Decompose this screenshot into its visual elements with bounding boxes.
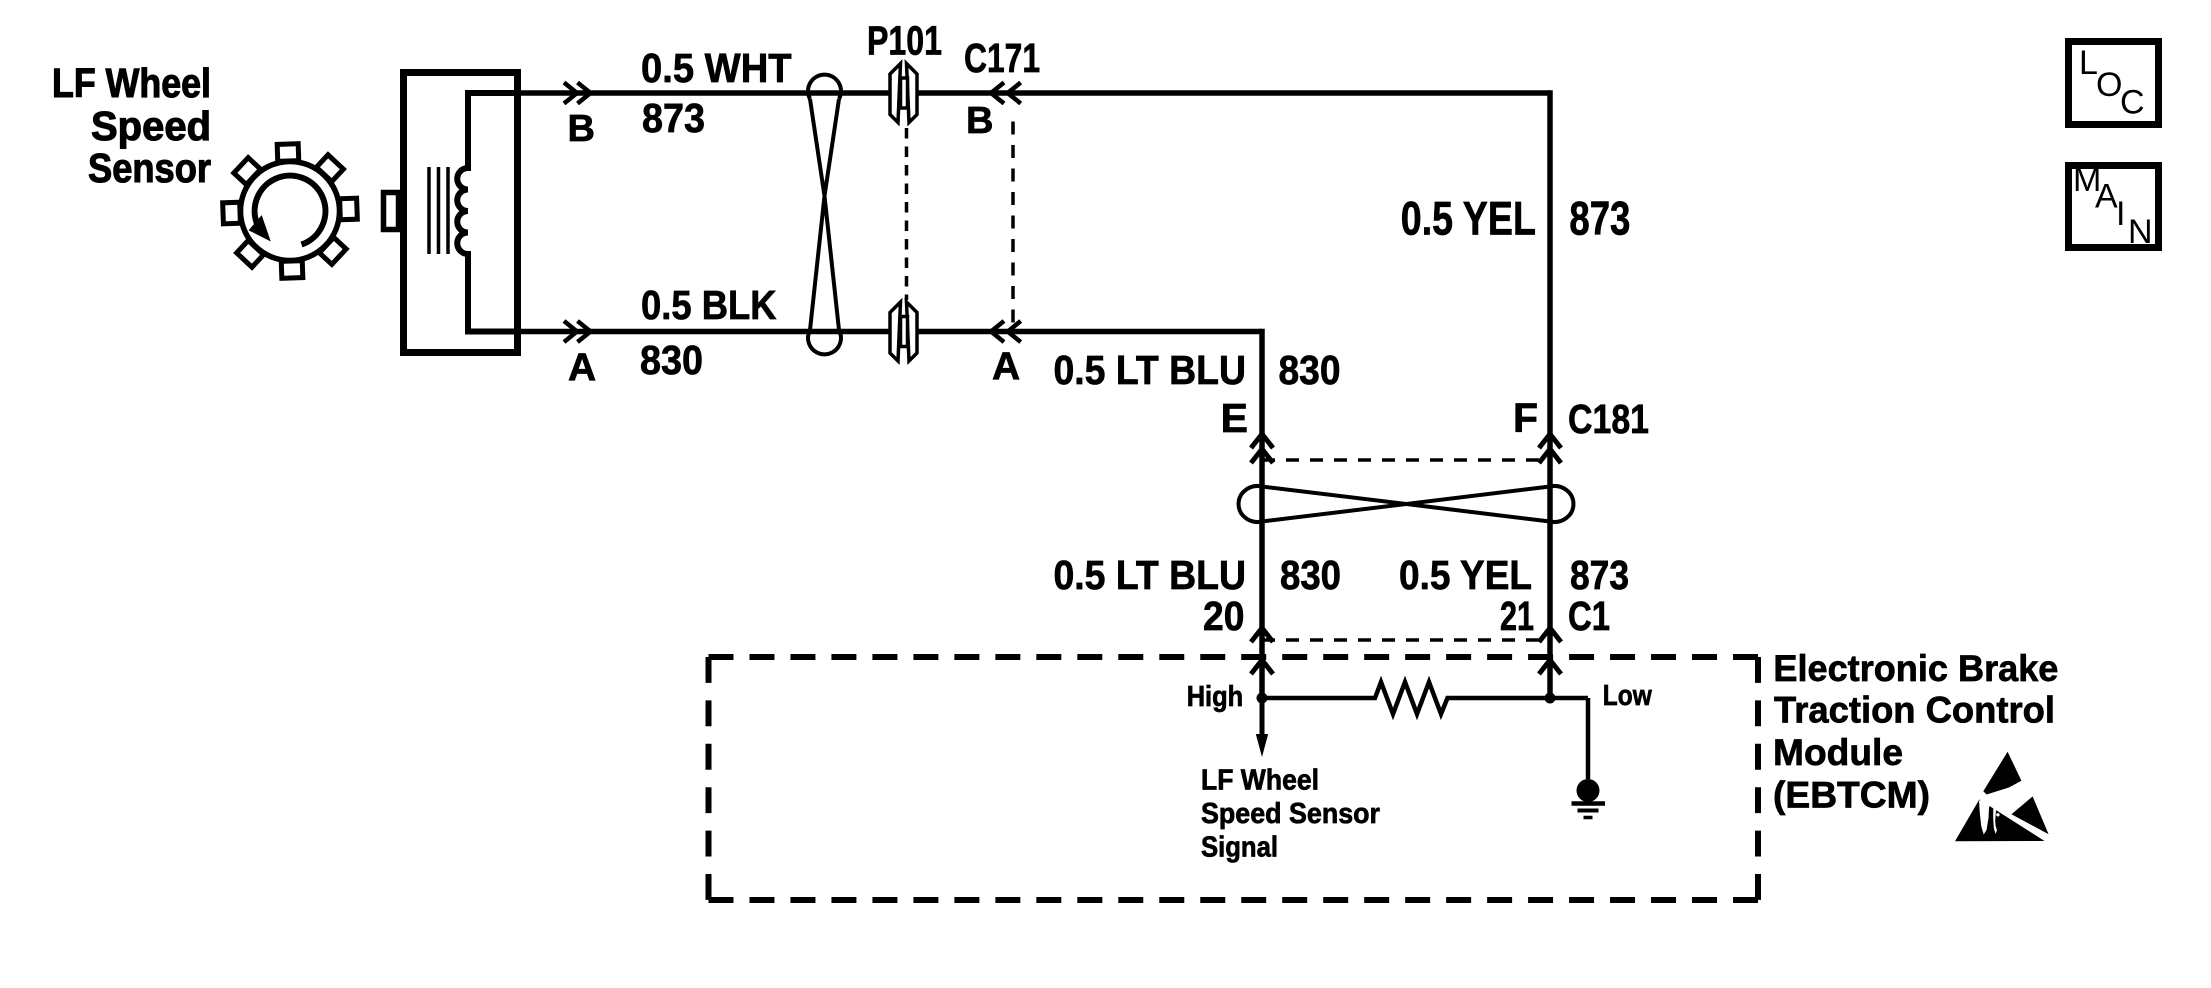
rotation arrow inside tone wheel <box>249 176 326 245</box>
signal output arrow <box>1256 700 1268 757</box>
svg-text:LF Wheel: LF Wheel <box>1201 765 1319 797</box>
svg-text:A: A <box>568 347 596 390</box>
svg-text:830: 830 <box>1280 552 1341 598</box>
svg-text:C171: C171 <box>964 35 1040 81</box>
svg-text:N: N <box>2128 213 2153 251</box>
svg-text:Traction Control: Traction Control <box>1774 690 2055 731</box>
svg-text:High: High <box>1187 681 1244 713</box>
grommet P101 on wire B <box>890 64 917 123</box>
node High junction dot <box>1257 693 1268 704</box>
svg-text:C1: C1 <box>1568 593 1610 639</box>
svg-text:B: B <box>966 100 993 142</box>
terminal A arrows <box>564 321 591 342</box>
signal label LF Wheel Speed Sensor Signal <box>1201 765 1380 864</box>
svg-text:P101: P101 <box>867 18 942 64</box>
svg-text:830: 830 <box>640 337 703 383</box>
svg-text:0.5 YEL: 0.5 YEL <box>1399 552 1532 598</box>
svg-text:Signal: Signal <box>1201 832 1278 864</box>
C181 dashed connector line <box>1262 458 1550 462</box>
svg-text:LF Wheel: LF Wheel <box>52 60 211 106</box>
sensor mounting tab <box>384 193 399 230</box>
svg-text:20: 20 <box>1203 593 1244 639</box>
svg-text:0.5 LT BLU: 0.5 LT BLU <box>1054 347 1247 393</box>
svg-text:830: 830 <box>1279 347 1341 393</box>
C171 terminal arrows wire A <box>991 321 1021 342</box>
C1 dashed connector line <box>1262 638 1550 642</box>
wire 873 vertical run <box>1547 90 1553 698</box>
svg-text:E: E <box>1221 395 1248 441</box>
C171 terminal arrows wire B <box>991 83 1021 104</box>
C181 terminal arrows pin F <box>1539 434 1561 463</box>
svg-text:873: 873 <box>1570 552 1629 598</box>
svg-text:21: 21 <box>1500 593 1534 639</box>
svg-text:0.5 YEL: 0.5 YEL <box>1401 193 1536 246</box>
svg-text:Low: Low <box>1603 680 1652 712</box>
svg-text:C181: C181 <box>1568 396 1649 442</box>
svg-text:A: A <box>992 346 1020 389</box>
wire to ground <box>1586 698 1591 779</box>
svg-text:Speed Sensor: Speed Sensor <box>1201 798 1380 830</box>
EBTCM dashed border <box>709 657 1759 900</box>
MAIN legend box <box>2069 161 2159 251</box>
svg-text:C: C <box>2120 84 2145 122</box>
svg-text:873: 873 <box>1569 193 1630 246</box>
module pin arrow Low <box>1539 660 1561 698</box>
svg-text:F: F <box>1513 395 1538 441</box>
twisted pair symbol horizontal <box>1239 486 1574 522</box>
svg-text:0.5 WHT: 0.5 WHT <box>641 45 792 91</box>
module pin arrow High <box>1251 660 1273 698</box>
terminal B arrows <box>564 83 591 104</box>
svg-text:B: B <box>568 108 595 150</box>
resistor R between High and Low <box>1262 682 1588 714</box>
module name label EBTCM <box>1773 648 2058 816</box>
svg-text:O: O <box>2096 66 2122 104</box>
svg-text:Sensor: Sensor <box>88 145 211 191</box>
svg-text:0.5 BLK: 0.5 BLK <box>641 282 777 328</box>
pole piece lines <box>429 167 448 254</box>
twisted pair symbol <box>808 75 841 355</box>
node Low junction dot <box>1545 693 1556 704</box>
LOC legend box <box>2069 42 2159 125</box>
C181 terminal arrows pin E <box>1251 434 1273 463</box>
sensor body box <box>404 73 518 353</box>
dashed tie between P101 grommets <box>905 128 909 300</box>
tone wheel (toothed reluctor ring) <box>223 144 358 279</box>
svg-text:0.5 LT BLU: 0.5 LT BLU <box>1054 552 1247 598</box>
svg-text:Electronic Brake: Electronic Brake <box>1773 648 2058 689</box>
svg-text:Speed: Speed <box>91 103 211 149</box>
C1 terminal arrow pin 21 <box>1539 628 1561 642</box>
ESD sensitivity symbol <box>1955 752 2050 842</box>
svg-text:A: A <box>2095 178 2118 216</box>
wire 830 vertical run <box>1259 329 1265 698</box>
svg-text:(EBTCM): (EBTCM) <box>1773 775 1930 816</box>
wire A: sensor terminal A to splice <box>521 329 1262 335</box>
svg-text:873: 873 <box>642 95 705 141</box>
C171 dashed connector line <box>1011 122 1015 328</box>
svg-text:Module: Module <box>1773 732 1903 773</box>
C1 terminal arrow pin 20 <box>1251 628 1273 642</box>
ground symbol <box>1572 779 1606 818</box>
svg-text:I: I <box>2116 195 2125 233</box>
grommet P101 on wire A <box>890 302 917 361</box>
wire B: sensor terminal B to splice <box>521 90 1550 96</box>
sensor coil <box>457 93 517 332</box>
label LF Wheel Speed Sensor <box>52 60 211 191</box>
